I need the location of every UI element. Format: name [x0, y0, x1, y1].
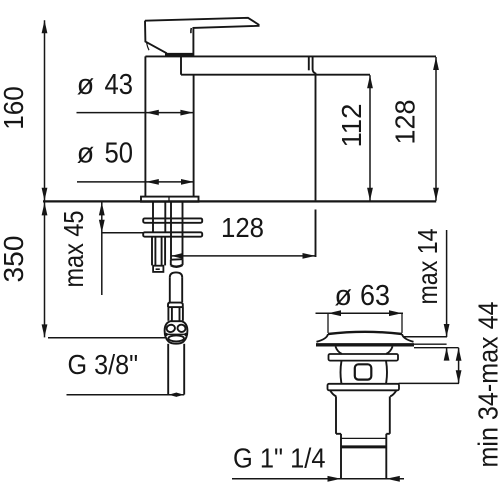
- drain body: [341, 361, 388, 384]
- svg-text:128: 128: [221, 212, 264, 243]
- dimension 112 line: [367, 75, 373, 201]
- extension line flange bottom: [414, 347, 459, 349]
- svg-text:63: 63: [360, 280, 390, 312]
- spout outlet axis line: [315, 73, 317, 257]
- extension line flange top: [414, 343, 447, 345]
- faucet base plate: [141, 197, 199, 202]
- extension line dome edge: [404, 336, 448, 338]
- svg-text:350: 350: [0, 236, 29, 283]
- drain tail pipe: [341, 434, 386, 478]
- label max14: [412, 229, 443, 305]
- dimension o43 line: [77, 110, 194, 116]
- svg-text:min 34-max 44: min 34-max 44: [473, 302, 500, 468]
- hose collar and ribs: [168, 303, 183, 321]
- threaded stud lower: [152, 237, 165, 272]
- svg-text:ø: ø: [77, 69, 94, 101]
- hose nut G3/8: [165, 321, 188, 344]
- spout end detail: [309, 56, 316, 73]
- faucet body top / spout top line (extends to 128 dim): [145, 55, 436, 57]
- drain gasket: [336, 347, 393, 354]
- label o63: [335, 280, 391, 312]
- dimension o63 line: [316, 310, 404, 333]
- label 128 middle: [221, 212, 264, 243]
- washer bar 1: [143, 218, 202, 222]
- label o50: [77, 138, 133, 170]
- svg-text:ø: ø: [335, 280, 352, 312]
- dimension 350 line: [42, 202, 165, 337]
- label 128 right: [390, 100, 421, 145]
- svg-text:ø: ø: [77, 138, 94, 170]
- label 160: [0, 86, 29, 130]
- G 3/8 leader line: [67, 393, 185, 397]
- counter line: [43, 200, 436, 202]
- label max45: [58, 211, 89, 288]
- svg-text:160: 160: [0, 86, 29, 130]
- drain lower plate: [328, 384, 400, 391]
- spout bottom line (extends to 112 dim): [181, 74, 370, 76]
- drain washer plate: [329, 354, 399, 361]
- faucet body left edge: [144, 56, 146, 196]
- faucet handle: [145, 18, 259, 57]
- svg-text:50: 50: [105, 138, 134, 170]
- drain flange bar: [316, 343, 414, 346]
- svg-text:max 45: max 45: [58, 211, 89, 288]
- dimension max14 line: [444, 230, 450, 361]
- dimension max45 line: [99, 202, 143, 295]
- label 350: [0, 236, 29, 283]
- label min34max44: [473, 302, 500, 468]
- svg-text:43: 43: [105, 69, 134, 101]
- svg-text:G 3/8": G 3/8": [68, 349, 139, 380]
- spout/body joint line: [180, 56, 182, 74]
- dimension 128 right line: [433, 57, 439, 201]
- dimension G1 1/4 line: [232, 476, 404, 482]
- drain threaded body: [336, 396, 390, 433]
- svg-text:max 14: max 14: [412, 229, 443, 305]
- threaded stud upper: [153, 202, 165, 232]
- flexible hose top: [170, 272, 182, 302]
- dimension o50 line: [77, 179, 194, 185]
- dimension 160 line: [42, 20, 48, 200]
- label 112: [336, 104, 367, 148]
- label o43: [77, 69, 133, 101]
- label G38: [68, 349, 139, 380]
- compression olive: [171, 259, 183, 267]
- dimension min34-max44 line: [399, 348, 462, 384]
- label G114: [233, 443, 326, 474]
- outlet tube: [171, 202, 183, 260]
- svg-text:G 1" 1/4: G 1" 1/4: [233, 443, 326, 474]
- dimension 128 middle line: [171, 253, 315, 259]
- faucet body right edge: [193, 75, 195, 197]
- overflow hole: [355, 364, 372, 379]
- svg-text:112: 112: [336, 104, 367, 148]
- svg-text:128: 128: [390, 100, 421, 145]
- hose tail: [168, 344, 184, 395]
- drain lower flare: [330, 390, 397, 396]
- washer bar 2: [143, 232, 202, 236]
- drain dome: [317, 332, 414, 342]
